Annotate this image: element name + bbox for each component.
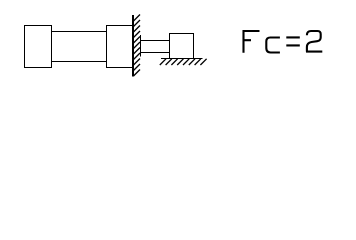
glyph 2 bbox=[306, 31, 322, 52]
cylinder tube bbox=[52, 32, 107, 62]
equals sign bbox=[286, 37, 300, 45]
mounting plate bbox=[140, 35, 142, 57]
ground hatching bbox=[160, 59, 207, 65]
fixed wall bbox=[132, 15, 134, 77]
piston rod bottom line bbox=[141, 52, 170, 54]
glyph c bbox=[266, 38, 280, 53]
wall hatching bbox=[134, 15, 141, 77]
ground line bbox=[161, 58, 203, 60]
mass block bbox=[170, 34, 194, 59]
glyph F bbox=[243, 30, 260, 53]
label Fc=2 bbox=[243, 30, 323, 53]
left end block bbox=[25, 26, 52, 68]
right block at wall bbox=[107, 26, 134, 68]
piston rod top line bbox=[141, 40, 170, 42]
